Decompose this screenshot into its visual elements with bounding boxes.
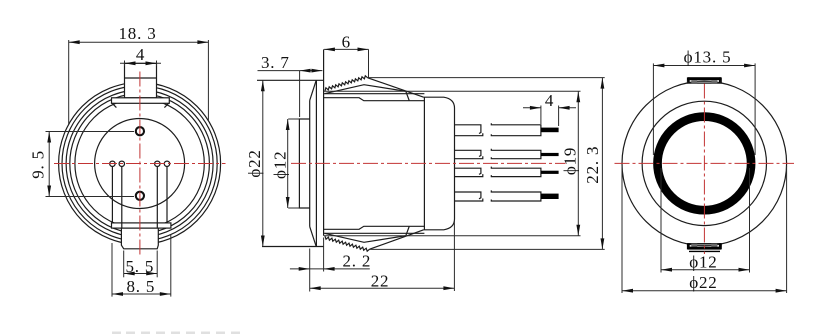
pin 1: [110, 161, 115, 166]
middle view: side section of push button: [245, 33, 605, 292]
dim phi22: [245, 80, 265, 246]
outer circle 1: [59, 83, 221, 245]
dim 22: [310, 221, 455, 291]
bezel chamfer bottom: [310, 227, 317, 247]
pin 2: [119, 161, 124, 166]
pin wires: [112, 166, 167, 228]
svg-text:22. 3: 22. 3: [583, 146, 602, 184]
pin row 2 right bar: [491, 149, 541, 159]
svg-text:18. 3: 18. 3: [119, 24, 157, 43]
bezel rim line 1: [315, 80, 317, 246]
top locating hole: [136, 127, 144, 135]
svg-text:22: 22: [371, 272, 390, 291]
dim 5.5: [124, 251, 158, 278]
bottom flange: [112, 223, 171, 228]
pin row 3 solder tip: [541, 171, 559, 174]
dim 22.3: [368, 78, 605, 250]
svg-text:ϕ12: ϕ12: [270, 151, 289, 179]
right view: front face of push button: [615, 47, 795, 293]
svg-text:5. 5: 5. 5: [125, 257, 154, 276]
illuminated ring (thick): [658, 117, 752, 211]
outer circle dia22: [622, 81, 787, 246]
dim 2.2: [290, 238, 371, 292]
dim 6: [324, 33, 369, 78]
housing bottom edge: [324, 226, 424, 229]
body cylinder dia19 top edge + extension: [324, 90, 581, 92]
svg-text:ϕ12: ϕ12: [689, 253, 717, 272]
circle 3: [66, 90, 213, 237]
body cylinder dia19 bottom edge + extension: [324, 235, 581, 237]
serrated snap clip top: [325, 76, 368, 91]
svg-text:ϕ13. 5: ϕ13. 5: [684, 47, 732, 66]
top key tab: [687, 77, 722, 83]
dim phi12 right view: [661, 168, 750, 273]
circle 5 washer: [75, 99, 204, 228]
pin row 1 right bar: [491, 123, 541, 136]
circle 4 (18.3 ref): [70, 94, 210, 234]
pin 3: [155, 161, 160, 166]
svg-text:4: 4: [136, 45, 145, 64]
top flange: [112, 98, 170, 104]
bezel chamfer top: [310, 80, 317, 100]
button plunger: [299, 119, 309, 208]
svg-text:8. 5: 8. 5: [126, 277, 155, 296]
svg-text:9. 5: 9. 5: [29, 150, 48, 179]
dim phi19: [561, 91, 581, 236]
dim phi12: [270, 119, 299, 208]
centerline horizontal: [54, 163, 226, 165]
body front face / 6-dim left extension: [323, 49, 325, 235]
clip arm bottom outer: [370, 230, 424, 249]
pin row 2 left bar: [455, 150, 483, 158]
dim phi13.5: [653, 47, 755, 155]
bottom locating hole: [136, 192, 144, 200]
svg-text:4: 4: [545, 91, 554, 110]
pin row 4 left bar: [455, 192, 483, 201]
dim 8.5: [112, 234, 171, 297]
dim 4 (pin tip): [523, 91, 576, 126]
dim 3.7: [258, 53, 323, 117]
bottom wire tab: [121, 228, 158, 249]
centerline vertical: [139, 72, 141, 257]
serrated snap clip bottom: [325, 236, 370, 251]
clip arm bottom inner: [325, 227, 409, 243]
centerline vertical right view: [703, 84, 705, 255]
svg-text:6: 6: [342, 33, 351, 52]
pin row 4 solder tip: [541, 194, 559, 199]
bezel inner circle: [642, 101, 766, 225]
pin row 4 right bar: [491, 190, 541, 201]
pin row 3 left bar: [455, 168, 483, 176]
left view: rear view of push button: [29, 24, 226, 297]
pin row 1 solder tip: [541, 128, 559, 133]
svg-text:ϕ22: ϕ22: [689, 273, 717, 292]
pin row 1 left bar: [455, 125, 483, 136]
dim 4 (tab width): [120, 45, 161, 66]
svg-text:3. 7: 3. 7: [261, 53, 290, 72]
housing top edge: [324, 98, 424, 101]
rear switch block: [424, 97, 455, 230]
outer circle 2: [62, 86, 217, 241]
clip arm top outer: [368, 78, 424, 97]
pin row 2 solder tip: [541, 153, 559, 156]
centerline horizontal right view: [615, 162, 795, 164]
inner circle: [95, 119, 185, 209]
svg-text:ϕ19: ϕ19: [561, 147, 580, 175]
dim 18.3: [69, 24, 209, 125]
clip arm top inner: [325, 85, 409, 101]
svg-text:2. 2: 2. 2: [342, 252, 371, 271]
dim phi22 right view: [622, 166, 787, 293]
faint cropped text at bottom edge: [112, 332, 240, 334]
top key tab: [125, 63, 157, 97]
pin 4: [164, 161, 169, 166]
svg-text:ϕ22: ϕ22: [245, 149, 264, 177]
bottom key tab: [687, 243, 722, 251]
bezel front face: [309, 100, 311, 226]
head bottom edge + dia22 bottom extension: [262, 246, 324, 248]
centerline middle view: [291, 162, 566, 164]
pin row 3 right bar: [491, 167, 541, 177]
dim 9.5: [29, 132, 135, 197]
head top edge + dia22 top extension: [257, 79, 324, 81]
